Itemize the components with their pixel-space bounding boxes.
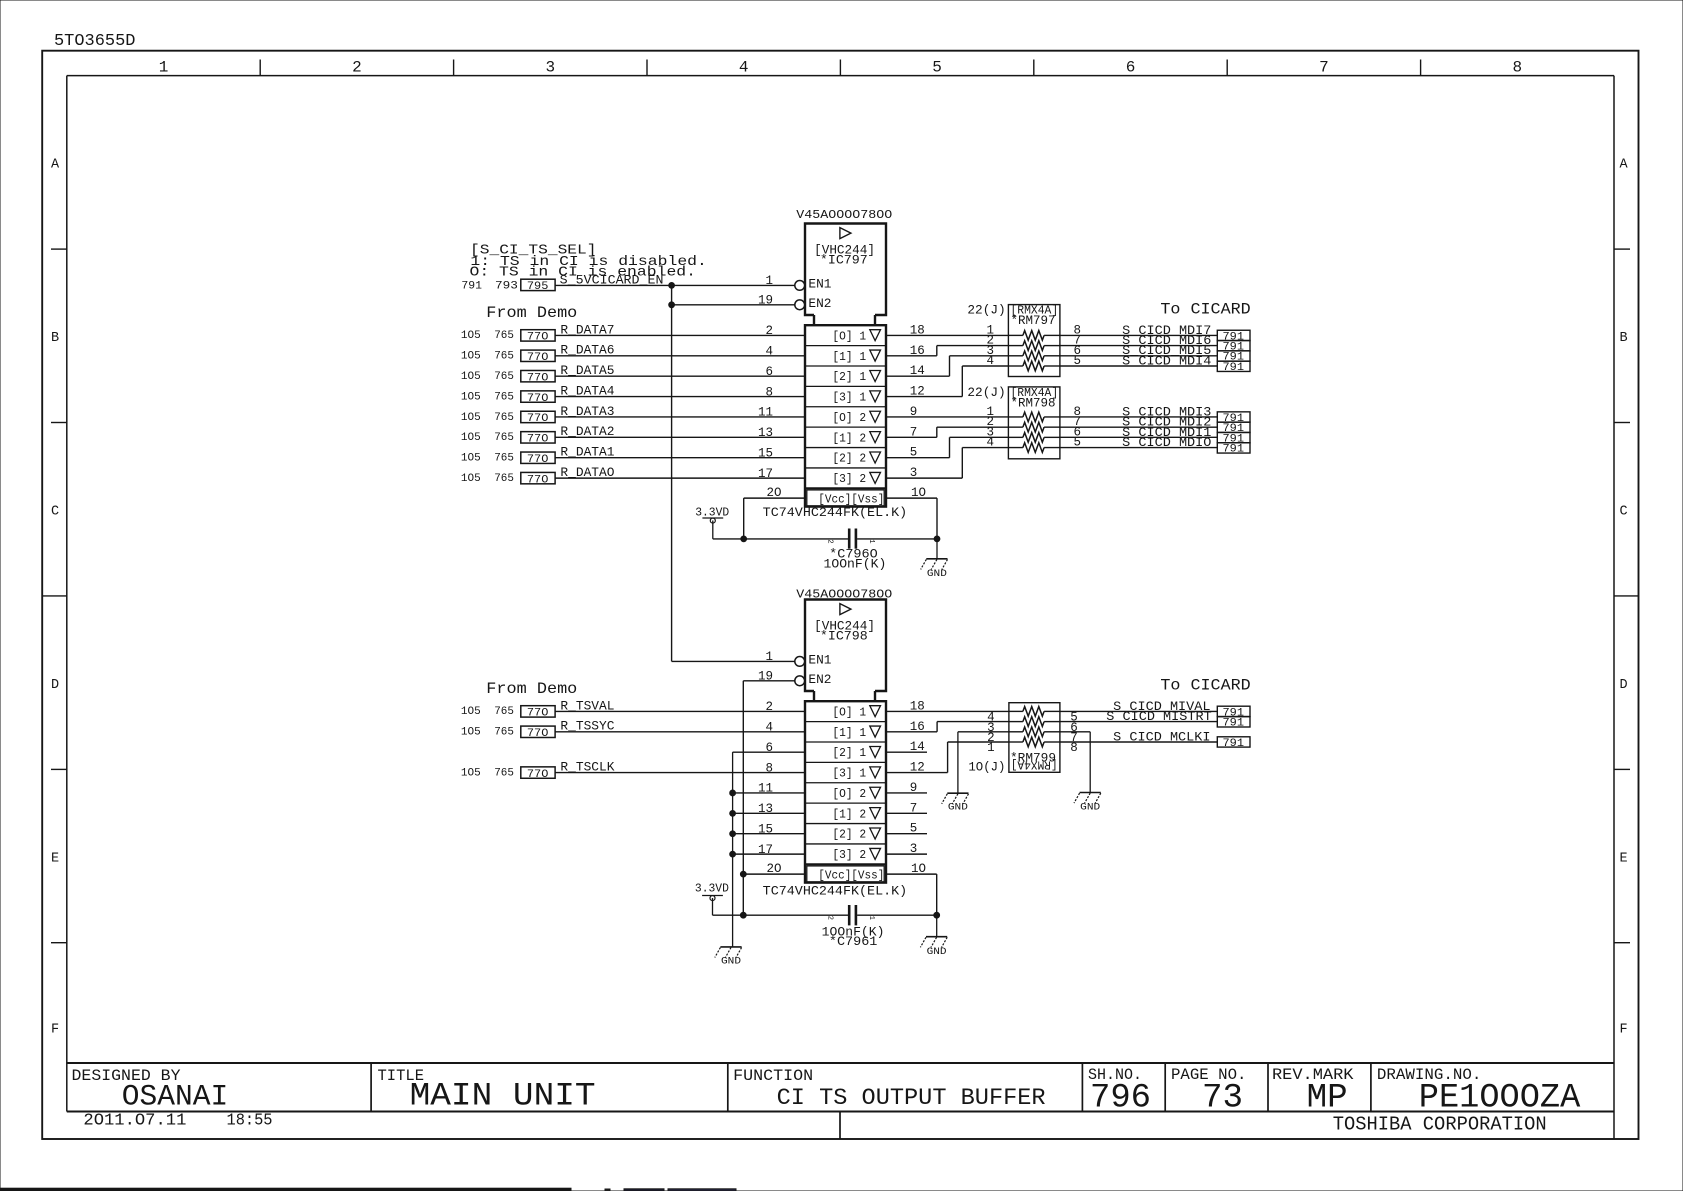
svg-text:765: 765: [494, 727, 514, 739]
svg-text:6: 6: [765, 741, 773, 755]
note S_CI_TS_SEL: [470, 242, 707, 280]
wire IC797 pin 16 to RM797 pin 2: [886, 334, 1008, 358]
svg-text:CI TS OUTPUT BUFFER: CI TS OUTPUT BUFFER: [777, 1085, 1046, 1111]
svg-text:MAIN UNIT: MAIN UNIT: [410, 1078, 596, 1115]
svg-text:1: 1: [765, 274, 773, 288]
svg-text:A: A: [1619, 158, 1628, 173]
net S_CICD_MDI4 from RM797 pin 5 to sheet 791: [1060, 353, 1250, 374]
svg-text:V45AOOOO78OO: V45AOOOO78OO: [796, 587, 892, 601]
svg-text:E: E: [51, 851, 59, 866]
wire RM799 pin 2 to GND: [958, 732, 1009, 793]
ground GND (grounded inputs IC798): [715, 947, 742, 968]
svg-text:6: 6: [765, 365, 773, 379]
net S_CICD_MDI0 from RM798 pin 5 to sheet 791: [1060, 435, 1250, 456]
svg-text:*IC797: *IC797: [820, 253, 868, 268]
svg-text:C: C: [51, 504, 59, 519]
svg-text:2O: 2O: [767, 862, 782, 876]
wire to ground (top): [936, 539, 938, 559]
svg-text:GND: GND: [927, 568, 947, 580]
svg-text:E: E: [1619, 851, 1627, 866]
svg-text:19: 19: [758, 294, 773, 308]
wire 3.3VD rail (top): [713, 538, 937, 540]
svg-text:1O(J): 1O(J): [968, 760, 1005, 775]
svg-text:1OOnF(K): 1OOnF(K): [824, 556, 887, 571]
svg-text:77O: 77O: [527, 413, 549, 425]
svg-text:S_CICD_MDI4: S_CICD_MDI4: [1122, 353, 1211, 368]
wire R_TSCLK to pin 8 of IC798: [555, 761, 805, 775]
svg-text:PE1OOOZA: PE1OOOZA: [1419, 1080, 1581, 1118]
svg-text:9: 9: [910, 405, 918, 419]
wire IC797 pin 18 to RM797 pin 1: [886, 323, 1008, 337]
svg-text:To CICARD: To CICARD: [1160, 677, 1250, 695]
svg-text:2: 2: [352, 59, 362, 77]
svg-text:1: 1: [987, 741, 995, 755]
svg-text:19: 19: [758, 670, 773, 684]
resistor network RM797 RMX4A 22(J): [967, 303, 1060, 377]
wire grounded input pin 15 of IC798: [733, 822, 805, 836]
svg-text:S_CICD_MISTRT: S_CICD_MISTRT: [1106, 709, 1212, 724]
svg-text:791: 791: [1223, 738, 1245, 750]
svg-text:[1] 1: [1] 1: [832, 727, 866, 740]
svg-text:EN2: EN2: [808, 296, 831, 311]
svg-text:GND: GND: [948, 802, 968, 814]
svg-text:5: 5: [1074, 354, 1082, 368]
wire pin 10 Vss of IC797 to GND: [886, 486, 937, 539]
svg-text:[3] 2: [3] 2: [832, 473, 866, 486]
junction 3.3VD rail at pin20 leg: [741, 536, 747, 542]
junction pin20 at 3.3V vertical: [740, 871, 746, 877]
svg-text:2: 2: [765, 324, 773, 338]
svg-text:1O5: 1O5: [461, 453, 481, 465]
wire grounded input pin 13 of IC798: [733, 802, 805, 816]
svg-text:1O5: 1O5: [461, 727, 481, 739]
svg-text:B: B: [1619, 331, 1627, 346]
svg-text:3.3VD: 3.3VD: [695, 883, 729, 896]
wire EN vertical corner into IC798 EN1 pin 1: [672, 650, 795, 664]
resistor network RM799 RMX4A 10(J), flipped: [968, 703, 1060, 775]
svg-text:77O: 77O: [527, 332, 549, 344]
svg-text:*IC798: *IC798: [820, 629, 868, 644]
net R_DATA5: refs 105 765, box 770: [461, 363, 615, 384]
svg-text:15: 15: [758, 446, 773, 460]
svg-text:13: 13: [758, 802, 773, 816]
svg-text:2O11.O7.11: 2O11.O7.11: [83, 1112, 186, 1131]
svg-text:8: 8: [765, 385, 773, 399]
ground GND (top section): [921, 559, 948, 580]
svg-text:765: 765: [494, 473, 514, 485]
svg-text:4: 4: [765, 344, 773, 358]
svg-text:7: 7: [1319, 59, 1329, 77]
svg-text:5: 5: [910, 822, 918, 836]
svg-text:FUNCTION: FUNCTION: [733, 1067, 813, 1085]
svg-text:To CICARD: To CICARD: [1160, 301, 1250, 319]
svg-text:3: 3: [545, 59, 555, 77]
svg-text:765: 765: [494, 412, 514, 424]
svg-text:791: 791: [1223, 362, 1245, 374]
svg-text:[O] 2: [O] 2: [832, 412, 866, 425]
svg-text:77O: 77O: [527, 708, 549, 720]
svg-text:16: 16: [910, 344, 925, 358]
IC U798 TC74VHC244FK buffer V45A00007800: [763, 587, 908, 898]
net S_CICD_MCLKI from RM799 pin 8 to sheet 791: [1060, 729, 1250, 750]
net S_CICD_MDI3 from RM798 pin 8 to sheet 791: [1060, 404, 1250, 425]
svg-text:3: 3: [910, 466, 918, 480]
power symbol 3.3VD (top): [695, 506, 729, 539]
net R_DATA2: refs 105 765, box 770: [461, 424, 615, 445]
stub IC798 pin 7: [886, 801, 927, 815]
svg-text:1O5: 1O5: [461, 432, 481, 444]
svg-text:5: 5: [932, 59, 942, 77]
svg-text:2: 2: [826, 539, 834, 543]
svg-text:14: 14: [910, 364, 925, 378]
svg-text:7: 7: [910, 425, 918, 439]
net S_CICD_MISTRT from RM799 pin 6 to sheet 791: [1060, 709, 1250, 730]
svg-text:1O: 1O: [911, 486, 926, 500]
net R_DATA3: refs 105 765, box 770: [461, 404, 615, 425]
svg-text:S_CICD_MCLKI: S_CICD_MCLKI: [1113, 729, 1210, 744]
svg-text:[3] 1: [3] 1: [832, 768, 866, 781]
svg-text:1: 1: [867, 916, 875, 920]
junction grounded-input vertical row 6: [730, 810, 736, 816]
net R_TSSYC: refs 105 765, box 770: [461, 719, 615, 740]
svg-text:12: 12: [910, 761, 925, 775]
svg-text:A: A: [51, 158, 60, 173]
svg-text:17: 17: [758, 843, 773, 857]
wire IC797 pin 14 to RM797 pin 3: [886, 344, 1008, 378]
wire IC798 pin 12 to RM799 pin 1: [886, 742, 1009, 775]
svg-text:18: 18: [910, 323, 925, 337]
svg-text:[2] 1: [2] 1: [832, 371, 866, 384]
svg-text:796: 796: [1090, 1080, 1151, 1118]
svg-text:EN2: EN2: [808, 672, 831, 687]
svg-text:5: 5: [910, 446, 918, 460]
net S_CICD_MDI1 from RM798 pin 6 to sheet 791: [1060, 425, 1250, 446]
svg-text:D: D: [51, 678, 59, 693]
ground GND (RM799 pin 7): [1074, 793, 1101, 814]
capacitor C7960 100nF: [824, 529, 887, 572]
net R_DATA0: refs 105 765, box 770: [461, 465, 615, 486]
svg-text:1O5: 1O5: [461, 351, 481, 363]
wire 3.3VD rail (bottom): [713, 914, 937, 916]
svg-text:22(J): 22(J): [967, 303, 1005, 318]
svg-text:MP: MP: [1307, 1080, 1348, 1118]
ground GND (IC798 Vss): [920, 937, 947, 958]
svg-text:From Demo: From Demo: [486, 304, 577, 322]
svg-text:73: 73: [1202, 1080, 1243, 1118]
svg-text:8: 8: [1070, 741, 1078, 755]
svg-text:[3] 2: [3] 2: [832, 849, 866, 862]
wire pin 20 Vcc of IC798: [743, 862, 805, 876]
svg-text:[1] 1: [1] 1: [832, 351, 866, 364]
svg-text:7: 7: [910, 801, 918, 815]
svg-text:77O: 77O: [527, 352, 549, 364]
net S_CICD_MDI5 from RM797 pin 6 to sheet 791: [1060, 343, 1250, 364]
svg-text:3: 3: [910, 842, 918, 856]
svg-text:D: D: [1619, 678, 1627, 693]
wire grounded-input vertical to GND: [732, 752, 734, 947]
svg-text:2: 2: [826, 916, 834, 920]
capacitor C7961 100nF: [822, 905, 885, 949]
svg-text:17: 17: [758, 467, 773, 481]
svg-text:791: 791: [1223, 717, 1245, 729]
svg-text:791: 791: [461, 280, 482, 292]
svg-text:GND: GND: [1080, 802, 1100, 814]
svg-text:16: 16: [910, 720, 925, 734]
svg-text:14: 14: [910, 740, 925, 754]
wire IC798 pin 16 to RM799 pin 3: [886, 720, 1009, 734]
junction GND leg (bottom): [934, 912, 940, 918]
wire IC797 pin 12 to RM797 pin 4: [886, 354, 1008, 399]
wire to EN2 pin 19 of IC797: [672, 294, 795, 308]
svg-text:[2] 2: [2] 2: [832, 453, 866, 466]
svg-text:8: 8: [1512, 59, 1522, 77]
svg-text:[2] 2: [2] 2: [832, 829, 866, 842]
wire grounded input pin 6 of IC798: [733, 741, 805, 755]
wire EN vertical from S_5VCICARD_EN down to IC798 EN1: [671, 285, 673, 661]
svg-text:1O5: 1O5: [461, 412, 481, 424]
wire IC797 pin 3 to RM798 pin 4: [886, 436, 1008, 481]
net S_CICD_MDI2 from RM798 pin 7 to sheet 791: [1060, 415, 1250, 436]
svg-text:77O: 77O: [527, 393, 549, 405]
svg-text:1: 1: [159, 59, 169, 77]
svg-text:77O: 77O: [527, 454, 549, 466]
wire IC797 pin 7 to RM798 pin 2: [886, 415, 1008, 439]
svg-text:765: 765: [494, 432, 514, 444]
svg-text:F: F: [1619, 1022, 1627, 1037]
svg-text:4: 4: [986, 354, 994, 368]
wire R_DATA7 to pin 2 of IC797: [555, 324, 805, 338]
svg-text:77O: 77O: [527, 434, 549, 446]
svg-text:1: 1: [765, 650, 773, 664]
svg-text:765: 765: [494, 391, 514, 403]
svg-text:[3] 1: [3] 1: [832, 392, 866, 405]
svg-text:765: 765: [494, 351, 514, 363]
svg-text:EN1: EN1: [808, 276, 831, 291]
svg-text:8: 8: [765, 761, 773, 775]
svg-text:5TO3655D: 5TO3655D: [54, 31, 136, 50]
svg-text:1O5: 1O5: [461, 371, 481, 383]
svg-text:6: 6: [1126, 59, 1136, 77]
junction grounded-input vertical row 7: [730, 831, 736, 837]
wire R_DATA1 to pin 15 of IC797: [555, 446, 805, 460]
IC U797 TC74VHC244FK buffer V45A00007800: [763, 208, 908, 520]
svg-text:B: B: [51, 331, 59, 346]
svg-text:From Demo: From Demo: [486, 680, 577, 698]
svg-text:11: 11: [758, 406, 773, 420]
svg-text:TC74VHC244FK(EL.K): TC74VHC244FK(EL.K): [763, 883, 908, 898]
wire R_DATA6 to pin 4 of IC797: [555, 344, 805, 358]
svg-text:1: 1: [867, 539, 875, 543]
svg-text:765: 765: [494, 330, 514, 342]
svg-text:V45AOOOO78OO: V45AOOOO78OO: [796, 208, 892, 222]
stub IC798 pin 14: [886, 740, 927, 754]
node S_5VCICARD_EN: refs 791 793, box 795: [461, 273, 663, 294]
svg-text:EN1: EN1: [808, 652, 831, 667]
svg-text:2O: 2O: [767, 486, 782, 500]
svg-text:1O5: 1O5: [461, 330, 481, 342]
svg-text:F: F: [51, 1022, 59, 1037]
svg-text:765: 765: [494, 371, 514, 383]
svg-text:13: 13: [758, 426, 773, 440]
svg-text:[O] 2: [O] 2: [832, 788, 866, 801]
junction grounded-input vertical row 5: [730, 790, 736, 796]
net R_TSVAL: refs 105 765, box 770: [461, 698, 615, 719]
net S_CICD_MDI7 from RM797 pin 8 to sheet 791: [1060, 323, 1250, 344]
svg-text:12: 12: [910, 385, 925, 399]
RM799 pin numbers: [987, 711, 1078, 756]
svg-text:1O5: 1O5: [461, 391, 481, 403]
ground GND (RM799 pin 2): [942, 793, 969, 813]
wire R_DATA5 to pin 6 of IC797: [555, 365, 805, 379]
svg-text:1O5: 1O5: [461, 706, 481, 718]
wire R_DATA4 to pin 8 of IC797: [555, 385, 805, 399]
svg-text:1O5: 1O5: [461, 767, 481, 779]
wire IC798 pin 18 through RM799 (S_CICD_MIVAL): [886, 699, 1009, 713]
svg-text:TOSHIBA CORPORATION: TOSHIBA CORPORATION: [1333, 1114, 1547, 1136]
svg-text:11: 11: [758, 782, 773, 796]
wire IC797 pin 9 to RM798 pin 1: [886, 405, 1008, 419]
svg-text:791: 791: [1223, 443, 1245, 455]
svg-text:OSANAI: OSANAI: [122, 1081, 229, 1115]
svg-text:4: 4: [765, 720, 773, 734]
svg-text:TC74VHC244FK(EL.K): TC74VHC244FK(EL.K): [763, 505, 908, 520]
stub IC798 pin 3: [886, 842, 927, 856]
junction on S_5VCICARD_EN at EN vertical: [669, 283, 675, 289]
net R_DATA7: refs 105 765, box 770: [461, 322, 615, 343]
svg-text:[2] 1: [2] 1: [832, 747, 866, 760]
net R_DATA4: refs 105 765, box 770: [461, 383, 615, 404]
net S_CICD_MIVAL from RM799 pin 5 to sheet 791: [1060, 699, 1250, 720]
svg-text:18:55: 18:55: [227, 1112, 273, 1131]
svg-text:4: 4: [739, 59, 749, 77]
title block: [67, 1063, 1614, 1139]
svg-text:77O: 77O: [527, 769, 549, 781]
wire pin 20 Vcc of IC797 to 3.3VD rail: [744, 486, 805, 539]
wire R_DATA0 to pin 17 of IC797: [555, 467, 805, 481]
svg-text:18: 18: [910, 699, 925, 713]
svg-text:[O] 1: [O] 1: [832, 330, 866, 343]
svg-text:5: 5: [1074, 436, 1082, 450]
wire IC797 pin 5 to RM798 pin 3: [886, 425, 1008, 459]
stub IC798 pin 9: [886, 781, 927, 795]
svg-text:4: 4: [986, 436, 994, 450]
svg-text:GND: GND: [927, 946, 947, 958]
svg-text:765: 765: [494, 767, 514, 779]
wire to ground (bottom right): [936, 915, 938, 937]
svg-text:793: 793: [495, 280, 518, 292]
wire R_TSSYC to pin 4 of IC798: [555, 720, 805, 734]
svg-text:9: 9: [910, 781, 918, 795]
svg-text:[1] 2: [1] 2: [832, 432, 866, 445]
svg-text:765: 765: [494, 453, 514, 465]
svg-text:*RM797: *RM797: [1011, 314, 1056, 328]
resistor network RM798 RMX4A 22(J): [967, 385, 1060, 459]
wire S_5VCICARD_EN to EN1 pin 1 of IC797: [555, 274, 795, 288]
wire R_DATA2 to pin 13 of IC797: [555, 426, 805, 440]
junction grounded-input vertical row 8: [730, 851, 736, 857]
svg-text:[1] 2: [1] 2: [832, 808, 866, 821]
junction at EN2 branch: [669, 302, 675, 308]
svg-text:15: 15: [758, 822, 773, 836]
stub IC798 pin 5: [886, 822, 927, 836]
svg-text:[O] 1: [O] 1: [832, 706, 866, 719]
junction GND leg: [934, 536, 940, 542]
svg-text:S_CICD_MDIO: S_CICD_MDIO: [1122, 435, 1211, 450]
svg-text:2: 2: [765, 700, 773, 714]
wire RM799 pin 7 to GND: [1060, 732, 1090, 793]
svg-text:1O: 1O: [911, 862, 926, 876]
net R_DATA6: refs 105 765, box 770: [461, 343, 615, 364]
svg-text:77O: 77O: [527, 372, 549, 384]
svg-text:22(J): 22(J): [967, 385, 1005, 400]
junction 3.3V vertical at rail: [740, 912, 746, 918]
svg-text:GND: GND: [721, 956, 741, 968]
wire pin 10 Vss of IC798 to GND: [886, 862, 937, 915]
svg-text:77O: 77O: [527, 474, 549, 486]
net S_CICD_MDI6 from RM797 pin 7 to sheet 791: [1060, 333, 1250, 354]
wire grounded input pin 11 of IC798: [733, 782, 805, 796]
svg-text:[Vcc][Vss]: [Vcc][Vss]: [818, 870, 884, 883]
wire R_DATA3 to pin 11 of IC797: [555, 406, 805, 420]
net R_DATA1: refs 105 765, box 770: [461, 445, 615, 466]
svg-text:[RMX4A]: [RMX4A]: [1011, 758, 1058, 772]
wire IC798 EN2 pin 19 to 3.3V vertical: [743, 670, 795, 916]
wire grounded input pin 17 of IC798: [733, 843, 805, 857]
svg-text:1O5: 1O5: [461, 473, 481, 485]
power symbol 3.3VD (bottom): [695, 883, 729, 916]
net R_TSCLK: refs 105 765, box 770: [461, 759, 615, 780]
svg-text:795: 795: [527, 281, 549, 293]
wire R_TSVAL to pin 2 of IC798: [555, 700, 805, 714]
svg-text:765: 765: [494, 706, 514, 718]
svg-text:77O: 77O: [527, 728, 549, 740]
svg-text:*C7961: *C7961: [829, 934, 878, 949]
svg-text:*RM798: *RM798: [1011, 397, 1056, 411]
svg-text:C: C: [1619, 504, 1627, 519]
